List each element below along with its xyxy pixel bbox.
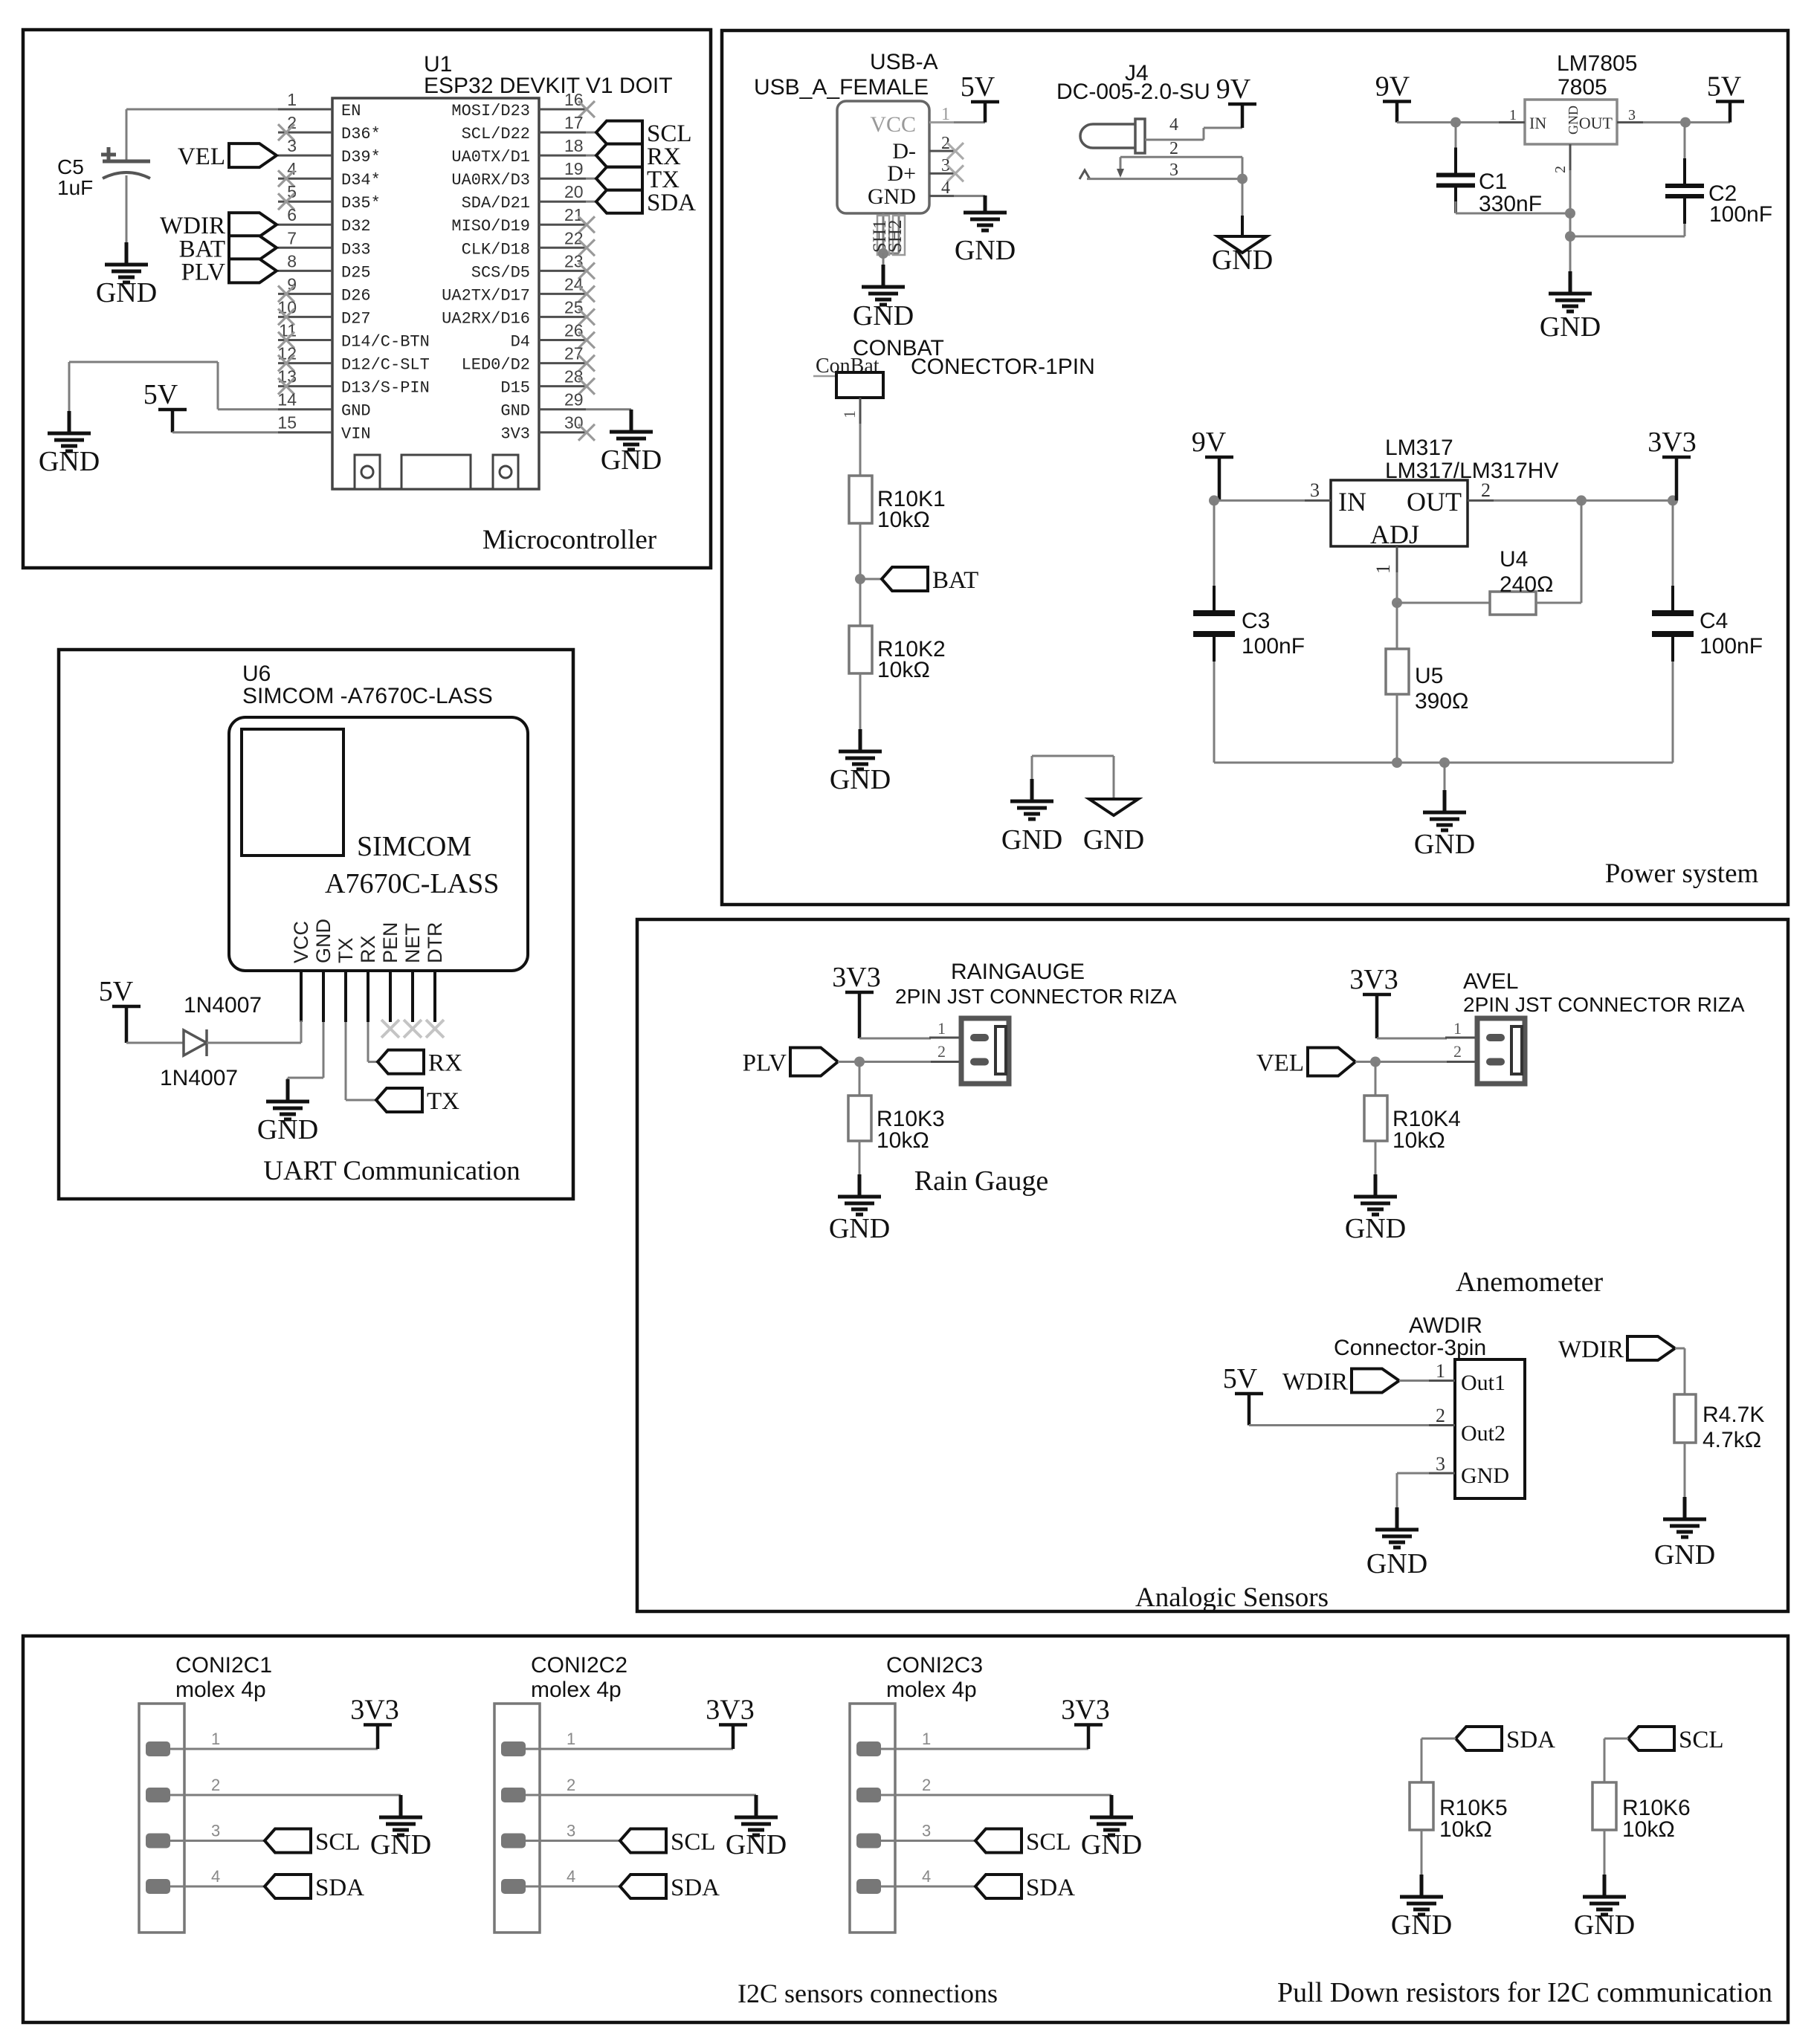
svg-text:100nF: 100nF xyxy=(1709,202,1772,227)
net flag SCL (CONI2C3) xyxy=(975,1829,1022,1853)
svg-text:SDA/D21: SDA/D21 xyxy=(462,194,530,213)
wire BAT node to R10K2 xyxy=(859,579,862,626)
svg-text:GND: GND xyxy=(1461,1464,1509,1488)
wire ADJ to U4 xyxy=(1397,602,1490,604)
svg-text:4: 4 xyxy=(941,178,950,198)
ground (R10K5) xyxy=(1400,1875,1443,1915)
ground (R10K6) xyxy=(1583,1875,1626,1915)
svg-text:UA0RX/D3: UA0RX/D3 xyxy=(451,171,530,190)
svg-text:UA0TX/D1: UA0TX/D1 xyxy=(451,148,530,166)
svg-text:PLV: PLV xyxy=(181,259,225,285)
CONI2C2 pin1 wire to 3V3 xyxy=(526,1748,733,1750)
svg-text:LM317/LM317HV: LM317/LM317HV xyxy=(1385,459,1558,483)
net flag SDA (U1 pin20) xyxy=(596,190,642,213)
stray ground pair wire xyxy=(1031,756,1033,797)
CONI2C2 pin 4 pad xyxy=(501,1879,526,1894)
ground (U1 pin29) xyxy=(610,410,653,450)
net flag TX (U1 pin19) xyxy=(596,167,642,190)
svg-text:3: 3 xyxy=(1436,1453,1445,1475)
CONI2C3 pin4 wire xyxy=(881,1886,975,1888)
svg-text:SCL: SCL xyxy=(315,1829,361,1856)
svg-text:240Ω: 240Ω xyxy=(1500,572,1553,597)
svg-text:1: 1 xyxy=(937,1019,946,1038)
svg-text:AWDIR: AWDIR xyxy=(1409,1313,1482,1338)
svg-text:4: 4 xyxy=(1169,115,1178,135)
U1 pin 6 (D32) xyxy=(278,224,332,226)
section frame: Microcontroller xyxy=(23,30,711,568)
svg-text:RX: RX xyxy=(428,1050,462,1077)
wire 5V to VIN xyxy=(172,431,278,433)
svg-text:TX: TX xyxy=(427,1088,459,1115)
resistor R4.7K 4.7k xyxy=(1674,1394,1696,1443)
svg-text:Pull Down resistors for I2C co: Pull Down resistors for I2C communicatio… xyxy=(1277,1977,1772,2008)
svg-text:IN: IN xyxy=(1529,114,1546,132)
net flag SCL (CONI2C1) xyxy=(265,1829,311,1853)
svg-text:Rain Gauge: Rain Gauge xyxy=(914,1165,1048,1197)
CONI2C2 pin4 wire xyxy=(526,1886,620,1888)
wire 3V3 to AVEL pin1 xyxy=(1377,1038,1447,1040)
U6 pin GND stub xyxy=(322,971,325,1022)
U1 pin 23 (SCS/D5) xyxy=(539,270,586,272)
ground (anemometer) xyxy=(1354,1174,1397,1215)
U1 bottom mounting pads xyxy=(355,455,380,489)
svg-text:23: 23 xyxy=(564,251,584,271)
U1 pin 10 (D27) xyxy=(278,316,332,318)
svg-text:1: 1 xyxy=(922,1730,931,1748)
wire R10K3 to ground xyxy=(859,1141,861,1176)
junction BAT node xyxy=(855,574,865,584)
svg-text:GND: GND xyxy=(1366,1548,1427,1579)
U1 pin 12 (D12/C-SLT) xyxy=(278,362,332,364)
svg-text:GND: GND xyxy=(955,235,1016,266)
svg-text:GND: GND xyxy=(1345,1213,1406,1244)
svg-text:3: 3 xyxy=(211,1822,220,1840)
CONI2C1 pin 4 pad xyxy=(146,1879,170,1894)
net flag RX (U1 pin18) xyxy=(596,144,642,167)
svg-text:5V: 5V xyxy=(99,976,134,1007)
svg-text:D33: D33 xyxy=(341,240,371,259)
connector USB-A (USB_A_FEMALE) body xyxy=(837,101,929,213)
wire PLV to RAINGAUGE pin2 xyxy=(838,1061,931,1063)
svg-text:10kΩ: 10kΩ xyxy=(1439,1817,1492,1842)
U6 module inner chip rect xyxy=(242,729,343,856)
svg-text:UA2TX/D17: UA2TX/D17 xyxy=(442,286,530,305)
svg-text:AVEL: AVEL xyxy=(1463,969,1519,994)
junction J4 pins 2-3 xyxy=(1242,157,1244,178)
svg-text:1: 1 xyxy=(1453,1019,1462,1038)
svg-text:SCL: SCL xyxy=(1679,1727,1724,1753)
ground (U1 pin14) xyxy=(48,411,91,451)
wire rail to ground xyxy=(1444,763,1446,792)
CONI2C3 pin3 wire xyxy=(881,1840,975,1842)
capacitor C1 330nF xyxy=(1455,123,1457,149)
svg-text:3V3: 3V3 xyxy=(832,962,880,993)
net flag WDIR (to R4.7K) xyxy=(1627,1336,1675,1360)
svg-text:SDA: SDA xyxy=(647,190,696,216)
svg-text:3V3: 3V3 xyxy=(1061,1695,1109,1726)
junction PLV node xyxy=(854,1057,865,1067)
svg-text:GND: GND xyxy=(830,764,891,795)
resistor R10K6 10k xyxy=(1592,1782,1616,1830)
U6 pin VCC stub xyxy=(300,971,303,1022)
wire R4.7K to ground xyxy=(1684,1443,1686,1498)
wire R10K4 to ground xyxy=(1375,1141,1377,1176)
svg-text:5V: 5V xyxy=(961,71,995,103)
resistor U5 390R xyxy=(1386,649,1409,694)
svg-text:1N4007: 1N4007 xyxy=(160,1066,238,1090)
U1 pin 15 (VIN) xyxy=(278,431,332,433)
wire diode to VCC xyxy=(207,1042,301,1044)
ground below C5 xyxy=(105,242,148,282)
net flag SCL (U1 pin17) xyxy=(596,121,642,144)
svg-text:4: 4 xyxy=(567,1867,575,1886)
svg-text:GND: GND xyxy=(1001,824,1062,856)
U1 pin 25 (UA2RX/D16) xyxy=(539,316,586,318)
junction bottom rail / U5 xyxy=(1392,757,1402,768)
svg-text:1: 1 xyxy=(1436,1360,1445,1382)
svg-text:LED0/D2: LED0/D2 xyxy=(462,356,530,375)
svg-text:1: 1 xyxy=(840,410,859,418)
LM7805 pin 2 wire xyxy=(1569,144,1572,170)
svg-text:DTR: DTR xyxy=(424,922,446,964)
svg-text:D34*: D34* xyxy=(341,171,381,190)
U1 pin 22 (CLK/D18) xyxy=(539,247,586,249)
net flag SDA (CONI2C1) xyxy=(265,1875,311,1898)
ground (CONI2C2) xyxy=(735,1795,778,1835)
svg-text:D+: D+ xyxy=(887,161,916,186)
svg-text:I2C sensors connections: I2C sensors connections xyxy=(738,1979,998,2008)
svg-text:26: 26 xyxy=(564,321,584,340)
svg-text:1: 1 xyxy=(1509,107,1517,123)
USB-A pin 2 (D-) no-connect xyxy=(929,150,954,152)
svg-text:2: 2 xyxy=(1169,139,1178,158)
svg-text:2PIN JST CONNECTOR RIZA: 2PIN JST CONNECTOR RIZA xyxy=(895,985,1177,1008)
CONI2C2 pin 2 pad xyxy=(501,1788,526,1802)
svg-text:1: 1 xyxy=(941,105,950,124)
svg-text:D36*: D36* xyxy=(341,125,381,143)
USB-A pin 4 (GND) wire xyxy=(929,195,954,197)
svg-text:D14/C-BTN: D14/C-BTN xyxy=(341,333,430,352)
svg-text:10: 10 xyxy=(277,297,297,317)
svg-text:2PIN JST CONNECTOR RIZA: 2PIN JST CONNECTOR RIZA xyxy=(1463,993,1745,1016)
svg-text:Out1: Out1 xyxy=(1461,1371,1505,1395)
svg-text:19: 19 xyxy=(564,159,584,178)
svg-text:10kΩ: 10kΩ xyxy=(877,658,930,682)
svg-text:PEN: PEN xyxy=(379,922,401,963)
svg-text:NET: NET xyxy=(401,923,424,963)
svg-text:10kΩ: 10kΩ xyxy=(877,508,930,532)
ground (R4.7K) xyxy=(1663,1497,1706,1537)
U1 pin 4 (D34*) xyxy=(278,178,332,180)
svg-text:D4: D4 xyxy=(511,333,530,352)
svg-text:1: 1 xyxy=(1372,564,1394,574)
wire U6 TX to flag xyxy=(345,1022,347,1100)
svg-text:CONI2C1: CONI2C1 xyxy=(175,1653,272,1678)
ground (stray, triangle) xyxy=(1089,799,1138,815)
net flag VEL (anemometer) xyxy=(1308,1048,1355,1076)
CONI2C3 pin 3 pad xyxy=(856,1834,881,1849)
svg-text:3V3: 3V3 xyxy=(1349,964,1398,995)
svg-text:OUT: OUT xyxy=(1407,487,1462,517)
svg-text:ADJ: ADJ xyxy=(1370,520,1419,549)
wire C3 to bottom rail xyxy=(1213,662,1216,763)
IC U6 SIMCOM A7670C module body xyxy=(229,717,528,971)
svg-text:18: 18 xyxy=(564,136,584,155)
svg-text:CONI2C2: CONI2C2 xyxy=(531,1653,627,1678)
svg-text:SH2: SH2 xyxy=(885,220,906,253)
svg-text:3: 3 xyxy=(1310,479,1320,501)
svg-text:24: 24 xyxy=(564,274,584,294)
svg-text:28: 28 xyxy=(564,367,584,387)
wire WDIR to R4.7K xyxy=(1675,1348,1685,1350)
svg-text:100nF: 100nF xyxy=(1700,634,1763,659)
junction VEL node xyxy=(1370,1057,1381,1067)
J4 pin 3 wire xyxy=(1079,170,1090,179)
U1 pin 29 (GND) xyxy=(539,408,586,410)
wire SDA to R10K5 xyxy=(1421,1738,1456,1740)
wire node to R10K3 xyxy=(859,1062,861,1096)
svg-text:MOSI/D23: MOSI/D23 xyxy=(451,102,530,120)
svg-text:2: 2 xyxy=(1453,1042,1462,1061)
section frame: UART Communication xyxy=(59,650,573,1199)
U6 pin RX stub xyxy=(367,971,369,1022)
svg-text:GND: GND xyxy=(96,277,157,308)
net flag SDA (CONI2C2) xyxy=(620,1875,666,1898)
U1 pin 16 (MOSI/D23) xyxy=(539,109,586,111)
svg-text:RAINGAUGE: RAINGAUGE xyxy=(951,960,1085,984)
net flag BAT (divider) xyxy=(860,578,882,580)
svg-text:C3: C3 xyxy=(1242,609,1270,633)
svg-text:17: 17 xyxy=(564,113,584,132)
USB-A pin 3 (D+) no-connect xyxy=(929,172,954,175)
junction gnd node 1 xyxy=(1565,208,1575,219)
svg-text:GND: GND xyxy=(370,1829,431,1860)
svg-text:3: 3 xyxy=(1169,161,1178,180)
svg-text:D26: D26 xyxy=(341,286,371,305)
junction OUT/C4 xyxy=(1668,495,1678,505)
CONI2C3 pin2 wire to ground xyxy=(881,1794,1111,1796)
svg-text:SCS/D5: SCS/D5 xyxy=(471,263,530,282)
svg-text:EN: EN xyxy=(341,102,361,120)
ground (U6) xyxy=(266,1079,309,1119)
U1 pin 5 (D35*) xyxy=(278,201,332,203)
svg-text:1N4007: 1N4007 xyxy=(184,993,262,1018)
wire U6 GND to ground xyxy=(323,1022,325,1078)
bottom rail wire xyxy=(1214,762,1673,764)
svg-text:GND: GND xyxy=(1540,311,1601,343)
U1 pin 19 (UA0RX/D3) xyxy=(539,178,586,180)
IC LM317 body xyxy=(1331,480,1468,546)
net flag RX (UART) xyxy=(378,1050,424,1074)
svg-text:20: 20 xyxy=(564,182,584,201)
USB-A shield pins SH1 SH2 xyxy=(882,213,885,253)
U1 pin 28 (D15) xyxy=(539,385,586,387)
svg-text:3: 3 xyxy=(567,1822,575,1840)
svg-text:2: 2 xyxy=(211,1776,220,1794)
net flag SCL (CONI2C2) xyxy=(620,1829,666,1853)
U1 pin 17 (SCL/D22) xyxy=(539,132,586,134)
CONI2C2 pin2 wire to ground xyxy=(526,1794,756,1796)
diode 1N4007 xyxy=(184,1030,207,1055)
wire 5V to diode xyxy=(126,1042,184,1044)
svg-text:2: 2 xyxy=(1436,1405,1445,1426)
net flag SDA (CONI2C3) xyxy=(975,1875,1022,1898)
svg-text:GND: GND xyxy=(312,919,335,963)
IC U1 ESP32 DEVKIT body xyxy=(332,98,539,489)
svg-text:Analogic Sensors: Analogic Sensors xyxy=(1135,1582,1329,1613)
CONI2C1 pin3 wire xyxy=(170,1840,265,1842)
wire SH to ground xyxy=(882,253,885,266)
no-connect NET xyxy=(404,1020,422,1038)
svg-text:12: 12 xyxy=(277,344,297,363)
CONI2C3 pin1 wire to 3V3 xyxy=(881,1748,1088,1750)
svg-text:1: 1 xyxy=(287,90,297,109)
svg-text:22: 22 xyxy=(564,228,584,248)
net flag WDIR (U1 pin6) xyxy=(229,213,277,236)
junction OUT/U4 feedback xyxy=(1576,495,1587,505)
wire U1 EN to C5 xyxy=(126,109,278,111)
wire C5 to ground xyxy=(126,175,128,242)
svg-text:C1: C1 xyxy=(1479,169,1507,194)
svg-text:TX: TX xyxy=(335,937,357,963)
wire ADJ to U5 xyxy=(1396,603,1398,649)
net flag WDIR (AWDIR pin1) xyxy=(1352,1369,1399,1393)
svg-text:D25: D25 xyxy=(341,263,371,282)
LM7805 pin 3 wire to 5V xyxy=(1617,121,1643,123)
svg-text:D35*: D35* xyxy=(341,194,381,213)
svg-text:UART Communication: UART Communication xyxy=(263,1156,520,1186)
svg-text:SDA: SDA xyxy=(1506,1727,1555,1753)
svg-text:3V3: 3V3 xyxy=(1647,427,1696,458)
LM317 ADJ pin wire xyxy=(1396,546,1398,572)
wire AWDIR GND pin xyxy=(1429,1472,1455,1475)
svg-text:U4: U4 xyxy=(1500,547,1528,572)
svg-text:C4: C4 xyxy=(1700,609,1728,633)
svg-text:D39*: D39* xyxy=(341,148,381,166)
U1 pin 13 (D13/S-PIN) xyxy=(278,385,332,387)
svg-text:U5: U5 xyxy=(1415,664,1443,688)
svg-text:ESP32 DEVKIT V1 DOIT: ESP32 DEVKIT V1 DOIT xyxy=(424,74,673,98)
CONI2C1 pin4 wire xyxy=(170,1886,265,1888)
svg-text:4.7kΩ: 4.7kΩ xyxy=(1703,1428,1761,1452)
U1 pin 3 (D39*) xyxy=(278,155,332,157)
U1 pin 11 (D14/C-BTN) xyxy=(278,339,332,341)
U1 pin 1 (EN) xyxy=(278,109,332,111)
svg-text:6: 6 xyxy=(287,205,297,224)
svg-text:15: 15 xyxy=(277,413,297,433)
svg-text:PLV: PLV xyxy=(743,1050,787,1077)
wire R10K6 to ground xyxy=(1604,1830,1606,1876)
U6 pin DTR stub xyxy=(433,971,436,1022)
svg-text:D-: D- xyxy=(892,139,916,164)
svg-text:GND: GND xyxy=(1083,824,1144,856)
U1 pin 24 (UA2TX/D17) xyxy=(539,293,586,295)
junction gnd node 2 xyxy=(1565,231,1575,242)
no-connect PEN xyxy=(381,1020,399,1038)
svg-text:SCL: SCL xyxy=(671,1829,716,1856)
svg-text:27: 27 xyxy=(564,344,584,363)
resistor R10K5 10k xyxy=(1410,1782,1433,1830)
svg-text:GND: GND xyxy=(1081,1829,1142,1860)
net flag BAT (U1 pin7) xyxy=(229,236,277,259)
wire 5V to Out2 xyxy=(1249,1424,1429,1426)
U1 pin 26 (D4) xyxy=(539,339,586,341)
svg-text:4: 4 xyxy=(922,1867,931,1886)
svg-text:SDA: SDA xyxy=(1026,1875,1075,1901)
svg-text:3V3: 3V3 xyxy=(350,1695,398,1726)
wire R10K5 to ground xyxy=(1421,1830,1423,1876)
svg-text:100nF: 100nF xyxy=(1242,634,1305,659)
net flag PLV (rain gauge) xyxy=(790,1048,838,1076)
svg-text:CONECTOR-1PIN: CONECTOR-1PIN xyxy=(911,355,1095,379)
svg-text:2: 2 xyxy=(1552,166,1569,173)
wire to ground (LM7805) xyxy=(1569,236,1572,273)
svg-text:Microcontroller: Microcontroller xyxy=(483,525,656,555)
wire U1 pin14 GND run xyxy=(218,408,278,410)
svg-text:MISO/D19: MISO/D19 xyxy=(451,217,530,236)
junction OUT/C2 xyxy=(1680,117,1691,128)
svg-text:USB_A_FEMALE: USB_A_FEMALE xyxy=(754,75,929,100)
svg-text:GND: GND xyxy=(726,1829,787,1860)
svg-text:GND: GND xyxy=(1566,106,1581,135)
U6 pin PEN stub xyxy=(389,971,392,1022)
svg-text:SCL: SCL xyxy=(1026,1829,1071,1856)
svg-text:10kΩ: 10kΩ xyxy=(1622,1817,1675,1842)
svg-text:molex 4p: molex 4p xyxy=(531,1678,622,1702)
svg-text:SCL/D22: SCL/D22 xyxy=(462,125,530,143)
svg-text:2: 2 xyxy=(1481,479,1491,501)
svg-text:10kΩ: 10kΩ xyxy=(1392,1128,1445,1153)
net flag SDA (pull-down) xyxy=(1456,1727,1502,1750)
svg-text:CLK/D18: CLK/D18 xyxy=(462,240,530,259)
ground (USB-A pin4) xyxy=(964,195,1007,230)
U1 pin 27 (LED0/D2) xyxy=(539,362,586,364)
net flag TX (UART) xyxy=(376,1088,422,1112)
svg-text:2: 2 xyxy=(567,1776,575,1794)
ground (J4, triangle) xyxy=(1218,236,1267,253)
U6 pin TX stub xyxy=(344,971,347,1022)
CONI2C1 pin 1 pad xyxy=(146,1741,170,1756)
svg-text:D15: D15 xyxy=(500,379,530,398)
wire C4 to bottom rail xyxy=(1672,662,1674,763)
svg-text:Connector-3pin: Connector-3pin xyxy=(1334,1336,1486,1360)
net flag VEL (U1 pin3) xyxy=(229,143,277,167)
wire node to R10K4 xyxy=(1375,1062,1377,1096)
svg-text:GND: GND xyxy=(341,402,371,421)
U1 pin 7 (D33) xyxy=(278,247,332,249)
svg-text:30: 30 xyxy=(564,413,584,433)
CONI2C1 pin 3 pad xyxy=(146,1834,170,1849)
resistor R10K1 10k xyxy=(849,476,872,523)
junction 9V/C3 xyxy=(1209,495,1219,505)
svg-text:GND: GND xyxy=(601,444,662,476)
wire WDIR to Out1 xyxy=(1399,1380,1429,1382)
svg-text:Power system: Power system xyxy=(1605,858,1759,889)
svg-text:3: 3 xyxy=(1628,107,1636,123)
svg-text:29: 29 xyxy=(564,390,584,410)
svg-text:GND: GND xyxy=(868,184,916,209)
net flag PLV (U1 pin8) xyxy=(229,259,277,282)
capacitor C5 (polarized, 1uF) xyxy=(101,147,150,178)
wire J4 to ground xyxy=(1242,179,1244,220)
svg-text:GND: GND xyxy=(853,300,914,331)
svg-text:2: 2 xyxy=(922,1776,931,1794)
resistor R10K3 10k xyxy=(848,1096,871,1141)
svg-text:D13/S-PIN: D13/S-PIN xyxy=(341,379,430,398)
svg-text:OUT: OUT xyxy=(1579,114,1613,132)
capacitor C2 100nF xyxy=(1684,123,1686,160)
U6 pin NET stub xyxy=(411,971,414,1022)
